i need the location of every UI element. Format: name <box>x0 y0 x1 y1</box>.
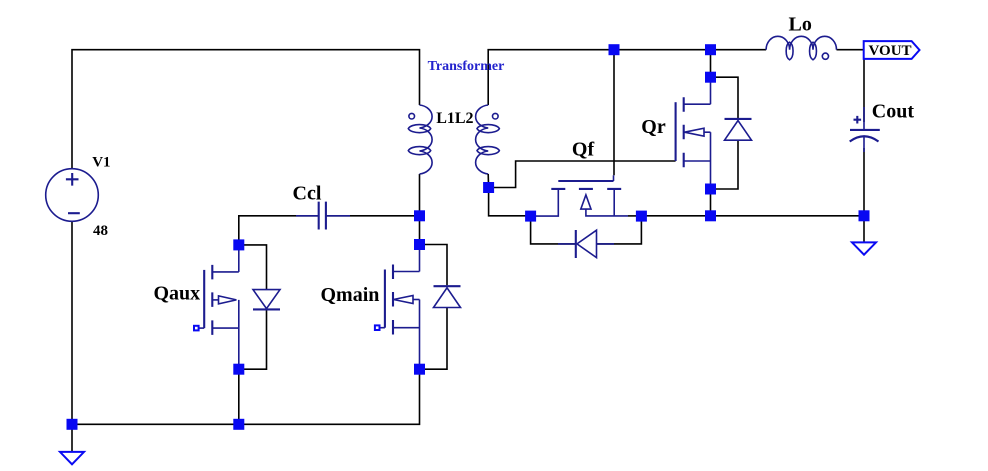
wire stub output ground <box>863 216 865 242</box>
node Qaux source rail junction <box>233 419 244 430</box>
gate terminal Qaux <box>194 326 199 331</box>
transistor Qmain <box>377 245 419 370</box>
node Qr source junction <box>705 184 716 195</box>
node Qr top rail junction <box>705 44 716 55</box>
svg-text:Transformer: Transformer <box>428 59 505 74</box>
capacitor Cout <box>850 107 880 152</box>
wire VOUT down to Cout top <box>863 50 865 122</box>
wire Cout bottom to ground node <box>863 148 865 216</box>
capacitor Ccl <box>296 202 350 230</box>
diode D-Qaux body diode <box>239 245 280 369</box>
svg-text:Lo: Lo <box>789 13 812 35</box>
wire secondary bottom node down to right rail <box>489 188 531 216</box>
svg-text:48: 48 <box>93 223 108 239</box>
svg-text:Cout: Cout <box>872 101 915 123</box>
wire transformer primary bottom to Qmain drain <box>419 174 421 245</box>
transformer secondary L2 <box>476 105 500 174</box>
node Qaux source junction <box>233 364 244 375</box>
svg-text:Qmain: Qmain <box>321 284 380 306</box>
transformer primary L1 <box>408 105 432 174</box>
ground under Cout <box>852 242 876 254</box>
diode D-Qf parallel diode <box>531 216 642 258</box>
svg-text:L1L2: L1L2 <box>436 110 473 127</box>
node Qmain drain junction <box>414 239 425 250</box>
node Qf gate top rail junction <box>609 44 620 55</box>
wire secondary node to Qr gate <box>489 161 676 188</box>
node Qaux drain junction <box>233 239 244 250</box>
svg-text:Qr: Qr <box>641 116 666 138</box>
node Qr rail junction <box>705 210 716 221</box>
transistor Qf <box>531 175 642 216</box>
node V1 ground junction <box>67 419 78 430</box>
svg-text:Qaux: Qaux <box>154 282 201 304</box>
node Qr drain junction <box>705 72 716 83</box>
node Ccl right junction <box>414 210 425 221</box>
node Qmain source junction <box>414 364 425 375</box>
net tag VOUT <box>864 41 920 59</box>
diode D-Qr body diode <box>711 77 752 189</box>
transistor Qaux <box>197 245 239 369</box>
wire Qf gate drop from top rail <box>613 50 615 176</box>
wire Lo to VOUT corner <box>837 49 865 51</box>
wire Qr drain drop <box>710 50 712 77</box>
gate terminal Qmain <box>375 325 380 330</box>
wire Ccl right to primary bottom node <box>327 215 420 217</box>
wire right bottom rail from Qf to output ground <box>641 215 864 217</box>
wire V1 bottom to ground rail <box>71 221 73 424</box>
wire bottom-left rail to Qmain source <box>72 369 420 424</box>
node Qf source junction <box>636 211 647 222</box>
voltage source V1 <box>46 169 99 222</box>
svg-text:VOUT: VOUT <box>869 43 912 59</box>
wire top-right rail secondary to Lo <box>488 50 766 105</box>
wire stub V1 ground <box>71 424 73 452</box>
diode D-Qmain body diode <box>420 245 461 370</box>
node Qf drain junction <box>525 211 536 222</box>
transistor Qr <box>676 77 711 189</box>
inductor Lo <box>766 36 836 60</box>
wire top-left rail from V1 to transformer primary <box>72 50 420 169</box>
svg-text:Ccl: Ccl <box>293 182 322 204</box>
wire Qaux source drop <box>238 369 240 424</box>
node output ground junction <box>859 210 870 221</box>
node secondary bottom junction <box>483 182 494 193</box>
svg-text:V1: V1 <box>92 155 110 171</box>
svg-text:Qf: Qf <box>572 138 595 160</box>
ground under V1 <box>60 452 84 464</box>
wire Qr source drop <box>710 189 712 216</box>
wire Qaux drain to Ccl left <box>239 216 318 245</box>
wire secondary coil bottom stub <box>487 174 489 188</box>
